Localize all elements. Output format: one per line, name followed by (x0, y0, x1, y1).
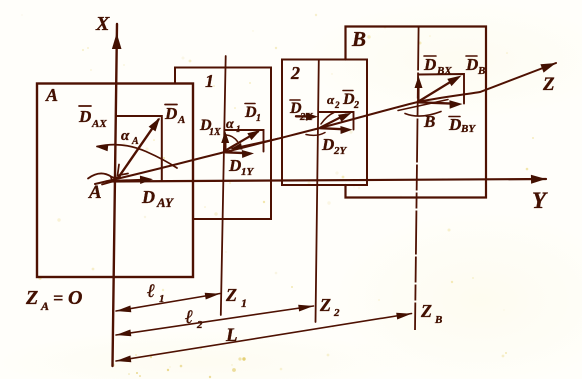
svg-text:2: 2 (353, 100, 359, 111)
arc below point B (405, 112, 441, 117)
Z axis (95, 63, 556, 184)
svg-text:Y: Y (532, 188, 548, 213)
svg-text:O: O (68, 287, 82, 309)
svg-text:D: D (164, 104, 177, 123)
vector D_BY (419, 102, 456, 103)
angle arc alpha_2 (321, 113, 334, 125)
plane 1 axis line (221, 56, 226, 315)
svg-text:D: D (228, 156, 241, 175)
unbalance square plane B (419, 74, 465, 104)
svg-text:Z: Z (319, 295, 331, 315)
angle arc alpha_1 (227, 135, 238, 142)
svg-text:ℓ: ℓ (147, 281, 155, 302)
dimension L (116, 314, 412, 362)
plane 1 rectangle (175, 68, 271, 220)
angle ray plane B (398, 100, 448, 111)
svg-text:B: B (351, 27, 366, 51)
svg-text:1: 1 (205, 71, 214, 91)
svg-text:D: D (465, 55, 478, 74)
svg-text:D: D (448, 115, 461, 134)
right angle mark at A (118, 165, 129, 176)
vector D_2 (321, 115, 347, 128)
unbalance square plane 2 (319, 112, 354, 130)
svg-text:2Y: 2Y (333, 145, 348, 157)
swirl at origin A (88, 173, 120, 178)
vector D_1Y (226, 151, 248, 154)
dimension l2 (116, 306, 314, 335)
X axis (113, 24, 118, 366)
svg-text:1: 1 (241, 296, 247, 310)
svg-text:B: B (434, 314, 442, 326)
svg-text:D: D (78, 107, 91, 126)
vector D_BX (417, 81, 420, 101)
svg-text:1: 1 (236, 124, 241, 134)
unbalance square plane A (117, 116, 162, 181)
svg-text:1Y: 1Y (241, 166, 255, 178)
plane B axis line (415, 27, 419, 331)
svg-text:A: A (131, 136, 139, 147)
svg-text:Z: Z (225, 285, 237, 305)
svg-text:ℓ: ℓ (185, 307, 193, 328)
vector D_1 (226, 132, 259, 151)
svg-text:D: D (423, 55, 436, 74)
unbalance square plane 1 (225, 130, 264, 152)
svg-text:AX: AX (91, 118, 107, 130)
svg-text:2X: 2X (299, 111, 314, 123)
svg-text:A: A (40, 299, 49, 313)
svg-text:2: 2 (196, 319, 203, 331)
svg-text:L: L (225, 325, 238, 346)
dimension l1 (116, 294, 220, 312)
plane 2 rectangle (282, 60, 367, 186)
svg-text:1: 1 (159, 293, 165, 305)
svg-text:Z: Z (25, 287, 38, 309)
svg-text:1X: 1X (209, 127, 221, 138)
svg-text:A: A (45, 85, 58, 105)
svg-text:B: B (423, 112, 435, 131)
svg-text:B: B (477, 65, 485, 77)
svg-text:BY: BY (460, 123, 476, 135)
vector D_1X (224, 135, 227, 151)
svg-text:α: α (327, 92, 335, 107)
plane B rectangle (346, 27, 487, 198)
svg-text:A: A (88, 182, 102, 203)
plane 2 axis line (316, 60, 319, 323)
vector D_2X (296, 115, 312, 118)
vector D_B (419, 79, 457, 102)
svg-text:α: α (121, 128, 130, 144)
svg-text:X: X (95, 13, 110, 35)
vector D_2Y (321, 128, 346, 129)
plane A rectangle (37, 84, 193, 278)
svg-text:Z: Z (420, 301, 432, 321)
vector D_AY (117, 180, 145, 181)
svg-text:D: D (321, 135, 334, 154)
svg-text:=: = (53, 288, 63, 308)
tick for point A (102, 178, 113, 185)
angle arc alpha_A (97, 145, 177, 168)
svg-text:AY: AY (156, 195, 174, 210)
svg-text:1: 1 (256, 113, 261, 124)
angle ray plane 1 (232, 139, 278, 149)
svg-text:2: 2 (290, 63, 300, 83)
svg-text:2: 2 (334, 100, 340, 110)
Y axis (106, 179, 546, 182)
svg-text:α: α (226, 117, 234, 132)
svg-text:D: D (141, 187, 155, 207)
svg-text:Z: Z (542, 74, 555, 95)
swirl below origin 2 (306, 133, 325, 136)
svg-text:2: 2 (333, 307, 340, 319)
vector D_A (118, 120, 159, 179)
svg-text:A: A (177, 114, 185, 126)
svg-text:BX: BX (436, 65, 452, 77)
